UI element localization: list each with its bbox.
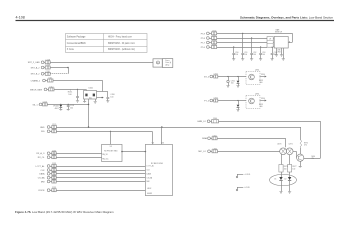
svg-text:PT-7: PT-7 <box>201 42 205 44</box>
svg-text:Q951: Q951 <box>255 94 259 96</box>
svg-text:C139: C139 <box>52 187 56 189</box>
svg-text:HIGH - Freq. band covr: HIGH - Freq. band covr <box>108 35 132 38</box>
svg-text:C922: C922 <box>212 40 216 42</box>
svg-text:-LOUD: -LOUD <box>244 187 250 189</box>
svg-text:100: 100 <box>260 106 263 108</box>
svg-text:SIG: SIG <box>41 131 45 133</box>
svg-text:100: 100 <box>235 54 238 56</box>
svg-text:RX FRONT END: RX FRONT END <box>104 150 118 152</box>
svg-text:PT-6: PT-6 <box>201 47 205 49</box>
svg-text:+LOUD: +LOUD <box>244 174 251 176</box>
svg-text:HMN_LO: HMN_LO <box>197 121 206 123</box>
svg-text:Amp: Amp <box>166 63 170 66</box>
svg-text:C902: C902 <box>212 30 216 32</box>
svg-text:U3: U3 <box>110 146 112 148</box>
svg-text:100: 100 <box>231 83 234 85</box>
svg-text:X Core: X Core <box>67 48 75 51</box>
svg-text:U9: U9 <box>269 38 271 40</box>
svg-text:RX_A_O: RX_A_O <box>36 152 44 155</box>
svg-text:C133: C133 <box>52 163 56 165</box>
svg-text:4-108: 4-108 <box>16 15 25 19</box>
svg-text:PT-8: PT-8 <box>201 38 205 40</box>
svg-text:6882T626X - W palm micr.: 6882T626X - W palm micr. <box>108 42 136 45</box>
svg-text:MW: MW <box>147 181 150 183</box>
svg-text:100: 100 <box>262 54 265 56</box>
svg-text:100: 100 <box>70 107 73 109</box>
svg-text:C136: C136 <box>52 175 56 177</box>
svg-text:4001: 4001 <box>55 108 59 110</box>
svg-text:C961: C961 <box>212 135 216 137</box>
svg-text:RX_OL: RX_OL <box>38 157 46 159</box>
svg-text:470: 470 <box>304 145 307 147</box>
svg-text:CLK: CLK <box>147 170 151 172</box>
svg-text:VOICE: VOICE <box>38 190 45 192</box>
svg-text:GND: GND <box>40 127 45 129</box>
svg-text:C125: C125 <box>52 124 56 126</box>
svg-text:CLK: CLK <box>41 170 46 172</box>
svg-text:BT_5: BT_5 <box>204 76 210 78</box>
svg-text:Figure 4-76. Low Band (29.7-4: Figure 4-76. Low Band (29.7-42/35-50 MHz… <box>15 210 114 214</box>
svg-text:MIC_LO: MIC_LO <box>198 151 206 153</box>
svg-text:MNA: MNA <box>202 137 207 140</box>
svg-text:D1: D1 <box>274 179 276 181</box>
svg-text:CHANN_2: CHANN_2 <box>31 79 41 82</box>
svg-text:100: 100 <box>292 168 295 170</box>
svg-text:CS_BA: CS_BA <box>38 177 45 180</box>
svg-text:C111: C111 <box>48 78 52 80</box>
svg-text:C912: C912 <box>212 35 216 37</box>
svg-text:C110: C110 <box>46 71 50 73</box>
svg-text:C962: C962 <box>213 148 217 150</box>
svg-text:U4L: U4L <box>89 98 92 100</box>
svg-text:100: 100 <box>110 96 113 98</box>
svg-text:C112: C112 <box>49 86 53 88</box>
svg-text:Q971: Q971 <box>289 143 293 145</box>
svg-text:LNB: LNB <box>277 49 280 51</box>
svg-text:SIL_O: SIL_O <box>32 104 38 106</box>
svg-text:MW: MW <box>41 181 45 183</box>
svg-text:DATA: DATA <box>147 173 152 176</box>
svg-text:R954: R954 <box>261 74 265 76</box>
svg-text:C137: C137 <box>52 179 56 181</box>
svg-text:C126: C126 <box>52 128 56 130</box>
svg-text:100: 100 <box>68 94 71 96</box>
svg-text:D2: D2 <box>284 179 286 181</box>
svg-text:C135: C135 <box>52 171 56 173</box>
svg-text:100: 100 <box>260 82 263 84</box>
svg-text:PA_15s: PA_15s <box>102 157 108 160</box>
svg-text:40083: 40083 <box>147 193 152 195</box>
svg-text:SRT_B_2: SRT_B_2 <box>31 74 41 76</box>
svg-text:100: 100 <box>253 54 256 56</box>
svg-text:LOTT_AL: LOTT_AL <box>147 165 154 168</box>
svg-text:C932: C932 <box>212 44 216 46</box>
svg-text:PT_5: PT_5 <box>204 100 210 102</box>
svg-text:100: 100 <box>284 168 287 170</box>
svg-text:CS_BA: CS_BA <box>147 176 153 179</box>
svg-text:Q951: Q951 <box>255 70 259 72</box>
svg-text:LOTT_AL: LOTT_AL <box>36 165 46 168</box>
svg-text:C109: C109 <box>46 65 50 67</box>
svg-text:R954: R954 <box>261 98 265 100</box>
svg-text:Software Package: Software Package <box>67 35 86 38</box>
svg-text:C134: C134 <box>52 167 56 169</box>
svg-text:Q970: Q970 <box>277 143 281 145</box>
svg-text:L921: L921 <box>214 74 218 76</box>
svg-text:U402: U402 <box>147 188 151 190</box>
svg-text:DATA: DATA <box>39 173 45 176</box>
svg-text:SRT_A_2: SRT_A_2 <box>31 66 41 69</box>
svg-text:Conventional/B63t: Conventional/B63t <box>67 42 86 45</box>
svg-text:U401: U401 <box>89 88 93 90</box>
svg-text:L921: L921 <box>214 98 218 100</box>
svg-text:C131: C131 <box>52 154 56 156</box>
svg-text:C115: C115 <box>43 101 47 103</box>
svg-text:6882T620X - (without mic): 6882T620X - (without mic) <box>108 48 135 51</box>
svg-text:C36: C36 <box>161 143 164 145</box>
svg-text:100: 100 <box>244 54 247 56</box>
svg-text:100: 100 <box>274 54 277 56</box>
svg-text:C108: C108 <box>46 59 50 61</box>
svg-text:SWITCH: SWITCH <box>275 32 283 34</box>
svg-text:PA_18: PA_18 <box>102 153 107 156</box>
svg-text:PT-9: PT-9 <box>201 33 205 35</box>
svg-text:C960: C960 <box>213 118 217 120</box>
svg-text:C130: C130 <box>52 150 56 152</box>
svg-text:SRT_2_CAN: SRT_2_CAN <box>28 61 40 64</box>
svg-text:UNO: UNO <box>277 51 281 53</box>
svg-text:MECH_SBW: MECH_SBW <box>30 89 42 91</box>
svg-text:Schematic Diagrams, Overlays,: Schematic Diagrams, Overlays, and Parts … <box>240 15 333 19</box>
